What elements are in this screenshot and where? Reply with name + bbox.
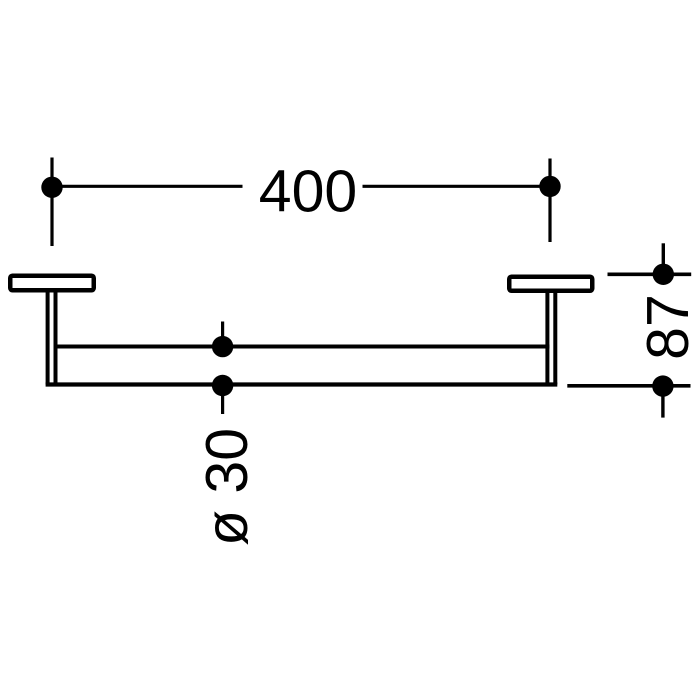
svg-text:400: 400 <box>259 159 357 225</box>
svg-text:ø 30: ø 30 <box>194 428 260 546</box>
svg-text:87: 87 <box>635 294 700 360</box>
